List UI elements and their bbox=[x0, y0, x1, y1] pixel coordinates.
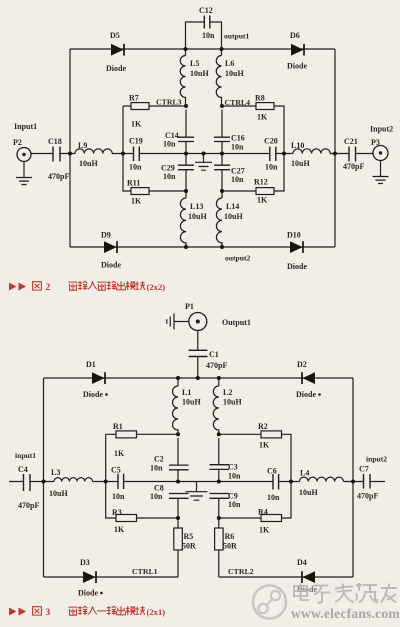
ground center fig2 bbox=[195, 154, 212, 171]
svg-text:D5: D5 bbox=[110, 31, 120, 40]
svg-text:C6: C6 bbox=[267, 467, 277, 476]
svg-text:Diode: Diode bbox=[296, 390, 316, 399]
diode D4 bbox=[297, 558, 317, 594]
svg-text:L13: L13 bbox=[190, 202, 203, 211]
svg-text:(2x1): (2x1) bbox=[147, 607, 166, 617]
connector P1 bbox=[185, 302, 251, 331]
capacitor C27 bbox=[214, 154, 245, 192]
svg-text:1K: 1K bbox=[114, 449, 125, 458]
svg-text:Output1: Output1 bbox=[222, 318, 251, 327]
resistor R4 bbox=[258, 508, 282, 535]
svg-text:R7: R7 bbox=[129, 94, 139, 103]
svg-text:10n: 10n bbox=[231, 175, 244, 184]
svg-text:R2: R2 bbox=[258, 422, 268, 431]
junction R2 / right column bbox=[217, 432, 221, 436]
diode D2 bbox=[296, 360, 321, 399]
svg-text:10n: 10n bbox=[231, 143, 244, 152]
svg-text:1K: 1K bbox=[257, 113, 268, 122]
wire top rail bbox=[70, 48, 335, 50]
capacitor C20 bbox=[264, 137, 278, 172]
inductor L14 bbox=[216, 191, 243, 247]
svg-text:output2: output2 bbox=[225, 254, 251, 263]
wire left frame bbox=[69, 49, 71, 247]
svg-text:C20: C20 bbox=[264, 137, 278, 146]
svg-text:L2: L2 bbox=[223, 388, 232, 397]
capacitor C6 bbox=[267, 467, 280, 503]
svg-text:L1: L1 bbox=[182, 388, 191, 397]
svg-text:1K: 1K bbox=[259, 526, 270, 535]
capacitor C7 bbox=[357, 455, 387, 501]
svg-text:D3: D3 bbox=[80, 558, 90, 567]
svg-text:1K: 1K bbox=[259, 441, 270, 450]
svg-text:10uH: 10uH bbox=[291, 159, 310, 168]
junction R12 / right column bbox=[220, 189, 224, 193]
wire right frame fig3 bbox=[352, 378, 354, 577]
svg-text:P3: P3 bbox=[371, 138, 380, 147]
caption figure 2 bbox=[9, 281, 165, 293]
wire right frame bbox=[334, 49, 336, 247]
svg-text:www.elecfans.com: www.elecfans.com bbox=[291, 606, 400, 621]
inductor L6 bbox=[216, 49, 244, 106]
junction left column / main bbox=[184, 152, 188, 156]
diode D5 bbox=[106, 31, 126, 73]
svg-text:10uH: 10uH bbox=[224, 212, 243, 221]
junction left branch / main fig3 bbox=[104, 480, 108, 484]
svg-text:470pF: 470pF bbox=[343, 162, 364, 171]
diode D10 bbox=[287, 231, 307, 272]
svg-text:Input2: Input2 bbox=[370, 125, 393, 134]
watermark logo circle bbox=[253, 586, 286, 619]
svg-text:10n: 10n bbox=[129, 163, 142, 172]
svg-text:L9: L9 bbox=[78, 141, 87, 150]
wire top rail fig3 bbox=[44, 377, 354, 379]
svg-text:10n: 10n bbox=[265, 163, 278, 172]
svg-text:10uH: 10uH bbox=[225, 69, 244, 78]
capacitor C14 bbox=[163, 110, 194, 154]
junction R4 / right column bbox=[217, 516, 221, 520]
svg-text:C21: C21 bbox=[344, 137, 358, 146]
svg-text:C1: C1 bbox=[209, 350, 219, 359]
svg-text:470pF: 470pF bbox=[206, 361, 227, 370]
wire C12 link bbox=[186, 22, 222, 49]
svg-text:C19: C19 bbox=[129, 137, 143, 146]
svg-text:C3: C3 bbox=[228, 463, 238, 472]
svg-text:50R: 50R bbox=[182, 542, 196, 551]
svg-text:D2: D2 bbox=[297, 360, 307, 369]
svg-text:C7: C7 bbox=[359, 465, 369, 474]
svg-text:D1: D1 bbox=[86, 360, 96, 369]
capacitor C4 bbox=[15, 451, 39, 510]
capacitor C19 bbox=[129, 137, 143, 172]
junction R3 / left column bbox=[176, 516, 180, 520]
junction CTRL3 bbox=[184, 104, 188, 108]
svg-text:10uH: 10uH bbox=[299, 488, 318, 497]
diode D6 bbox=[287, 31, 307, 71]
wire CTRL3 line bbox=[123, 106, 186, 154]
svg-text:L3: L3 bbox=[51, 468, 60, 477]
svg-text:C2: C2 bbox=[154, 455, 164, 464]
svg-text:R3: R3 bbox=[112, 508, 122, 517]
svg-text:output1: output1 bbox=[224, 32, 250, 41]
svg-text:10n: 10n bbox=[112, 492, 125, 501]
junction L2 top bbox=[217, 376, 221, 380]
svg-text:3: 3 bbox=[46, 608, 51, 618]
svg-text:470pF: 470pF bbox=[18, 501, 39, 510]
svg-text:R1: R1 bbox=[113, 422, 123, 431]
junction R11 / left column bbox=[184, 189, 188, 193]
junction right frame / main bbox=[333, 152, 337, 156]
svg-text:CTRL2: CTRL2 bbox=[228, 567, 254, 576]
inductor L1 bbox=[173, 378, 202, 434]
svg-text:C4: C4 bbox=[18, 465, 28, 474]
svg-text:470pF: 470pF bbox=[357, 492, 378, 501]
resistor R1 bbox=[113, 422, 137, 458]
junction top-left column bbox=[184, 47, 188, 51]
resistor R5 bbox=[174, 518, 196, 577]
svg-text:10uH: 10uH bbox=[182, 398, 201, 407]
svg-text:10uH: 10uH bbox=[49, 489, 68, 498]
resistor R8 bbox=[255, 94, 274, 122]
diode D1 bbox=[83, 360, 108, 399]
capacitor C21 bbox=[343, 137, 364, 171]
capacitor C5 bbox=[111, 466, 125, 502]
junction P1 tap bbox=[196, 376, 200, 380]
junction left branch / main bbox=[121, 152, 125, 156]
wire CTRL2 line bbox=[219, 576, 353, 578]
svg-text:10n: 10n bbox=[202, 31, 215, 40]
wire R1 line bbox=[106, 434, 178, 481]
capacitor C2 bbox=[150, 438, 189, 482]
wire main line fig3 bbox=[9, 481, 385, 483]
junction right column / main bbox=[220, 152, 224, 156]
svg-text:R11: R11 bbox=[127, 179, 140, 188]
ground P1 (left-facing) bbox=[167, 314, 189, 330]
junction R1 / left column bbox=[176, 432, 180, 436]
capacitor C9 bbox=[210, 492, 242, 519]
svg-text:C12: C12 bbox=[199, 6, 213, 15]
junction right branch / main fig3 bbox=[289, 480, 293, 484]
svg-text:D6: D6 bbox=[290, 31, 300, 40]
capacitor C1 bbox=[189, 331, 228, 379]
resistor R2 bbox=[258, 422, 282, 450]
resistor R7 bbox=[129, 94, 149, 129]
svg-text:2: 2 bbox=[46, 283, 51, 293]
capacitor C3 bbox=[210, 438, 242, 482]
connector P2 bbox=[13, 122, 37, 162]
svg-text:CTRL3: CTRL3 bbox=[156, 98, 182, 107]
svg-text:D9: D9 bbox=[101, 231, 111, 240]
junction right column / bottom rail bbox=[220, 245, 224, 249]
svg-text:10uH: 10uH bbox=[188, 212, 207, 221]
inductor L10 bbox=[291, 141, 330, 168]
junction left frame / main bbox=[68, 152, 72, 156]
inductor L9 bbox=[75, 141, 112, 168]
svg-text:1K: 1K bbox=[131, 197, 142, 206]
connector P3 bbox=[370, 125, 393, 161]
wire CTRL1 line bbox=[44, 576, 179, 578]
svg-text:50R: 50R bbox=[223, 542, 237, 551]
svg-text:L4: L4 bbox=[300, 469, 309, 478]
capacitor C16 bbox=[214, 110, 245, 154]
capacitor C29 bbox=[161, 154, 194, 192]
svg-text:L6: L6 bbox=[225, 59, 234, 68]
svg-text:L5: L5 bbox=[190, 59, 199, 68]
inductor L2 bbox=[213, 378, 242, 434]
resistor R11 bbox=[127, 179, 149, 206]
wire R11 line bbox=[123, 154, 186, 192]
resistor R6 bbox=[215, 518, 237, 577]
svg-text:10n: 10n bbox=[267, 493, 280, 502]
junction right branch / main bbox=[282, 152, 286, 156]
wire R2 line bbox=[219, 434, 291, 481]
wire CTRL4 line bbox=[222, 106, 284, 154]
svg-text:P1: P1 bbox=[185, 302, 194, 311]
wire main line left bbox=[31, 153, 186, 155]
inductor L5 bbox=[180, 49, 209, 106]
svg-text:10n: 10n bbox=[150, 492, 163, 501]
svg-text:input2: input2 bbox=[366, 455, 387, 464]
svg-text:Diode: Diode bbox=[287, 262, 307, 271]
svg-text:10uH: 10uH bbox=[79, 159, 98, 168]
svg-text:470pF: 470pF bbox=[48, 172, 69, 181]
diode D9 bbox=[101, 231, 121, 270]
svg-text:C16: C16 bbox=[231, 134, 245, 143]
svg-text:Diode: Diode bbox=[78, 589, 98, 598]
svg-text:10n: 10n bbox=[163, 140, 176, 149]
svg-text:Diode: Diode bbox=[287, 62, 307, 71]
resistor R3 bbox=[112, 508, 137, 534]
svg-text:10uH: 10uH bbox=[223, 398, 242, 407]
inductor L3 bbox=[49, 468, 92, 498]
inductor L13 bbox=[180, 191, 207, 247]
svg-text:L10: L10 bbox=[291, 141, 304, 150]
junction left column / main fig3 bbox=[176, 480, 180, 484]
wire main line center and right bbox=[186, 153, 373, 155]
svg-text:CTRL1: CTRL1 bbox=[132, 567, 158, 576]
junction ground tap fig2 bbox=[202, 152, 206, 156]
svg-text:R12: R12 bbox=[254, 178, 268, 187]
junction right column / main fig3 bbox=[217, 480, 221, 484]
svg-text:10uH: 10uH bbox=[190, 69, 209, 78]
wire R12 line bbox=[222, 154, 284, 192]
svg-text:10n: 10n bbox=[163, 172, 176, 181]
svg-text:1K: 1K bbox=[257, 196, 268, 205]
junction left frame / main fig3 bbox=[42, 480, 46, 484]
svg-text:R8: R8 bbox=[255, 94, 265, 103]
svg-text:Diode: Diode bbox=[83, 390, 103, 399]
svg-text:R6: R6 bbox=[225, 532, 235, 541]
svg-text:D4: D4 bbox=[297, 558, 307, 567]
junction right frame / main fig3 bbox=[351, 480, 355, 484]
wire R4 line bbox=[219, 482, 291, 519]
ground P2 bbox=[16, 162, 32, 185]
junction CTRL4 bbox=[220, 104, 224, 108]
svg-text:CTRL4: CTRL4 bbox=[225, 98, 251, 107]
capacitor C18 bbox=[48, 137, 69, 181]
svg-text:input1: input1 bbox=[15, 451, 36, 460]
svg-text:(2x2): (2x2) bbox=[147, 282, 166, 292]
junction left column / bottom rail bbox=[184, 245, 188, 249]
svg-text:R5: R5 bbox=[184, 532, 194, 541]
svg-text:10n: 10n bbox=[150, 464, 163, 473]
resistor R12 bbox=[254, 178, 274, 205]
junction top-right column bbox=[220, 47, 224, 51]
svg-text:Diode: Diode bbox=[106, 64, 126, 73]
watermark text elecfans chinese bbox=[294, 583, 397, 603]
svg-text:Input1: Input1 bbox=[14, 122, 37, 131]
ground center fig3 bbox=[186, 482, 208, 501]
diode D3 bbox=[78, 558, 103, 598]
svg-text:C5: C5 bbox=[111, 466, 121, 475]
svg-text:L14: L14 bbox=[226, 202, 239, 211]
svg-text:D10: D10 bbox=[287, 231, 301, 240]
capacitor C12 bbox=[199, 6, 215, 40]
svg-text:1K: 1K bbox=[114, 525, 125, 534]
ground P3 bbox=[373, 161, 389, 184]
wire left frame fig3 bbox=[43, 378, 45, 577]
svg-text:P2: P2 bbox=[13, 138, 22, 147]
svg-text:10n: 10n bbox=[228, 500, 241, 509]
svg-text:1K: 1K bbox=[131, 120, 142, 129]
wire R3 line bbox=[106, 482, 178, 519]
capacitor C8 bbox=[150, 484, 189, 519]
caption figure 3 bbox=[9, 606, 165, 618]
svg-text:C18: C18 bbox=[48, 137, 62, 146]
wire bottom rail bbox=[70, 246, 335, 248]
inductor L4 bbox=[299, 469, 343, 498]
junction L1 top bbox=[176, 376, 180, 380]
svg-text:R4: R4 bbox=[258, 508, 268, 517]
svg-text:10n: 10n bbox=[228, 472, 241, 481]
svg-text:Diode: Diode bbox=[101, 261, 121, 270]
